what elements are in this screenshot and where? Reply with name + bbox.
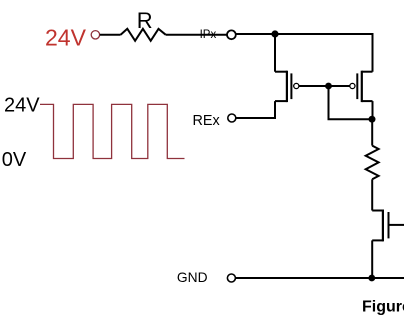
svg-text:Figure: Figure <box>362 299 404 316</box>
node N1 <box>271 30 278 37</box>
wire <box>275 34 373 72</box>
transistor M1 (PMOS) <box>275 71 329 102</box>
wire <box>329 86 373 119</box>
wire <box>371 119 373 145</box>
wire <box>236 101 275 118</box>
svg-text:REx: REx <box>193 113 221 129</box>
transistor M3 (NMOS) <box>372 210 404 242</box>
wire <box>371 240 373 278</box>
svg-text:24V: 24V <box>4 94 40 116</box>
transistor M2 (PMOS) <box>329 71 373 102</box>
svg-text:GND: GND <box>177 270 208 285</box>
node N3 <box>369 116 376 123</box>
wire <box>236 33 275 35</box>
wire <box>371 179 373 210</box>
wire GND rail <box>236 277 404 279</box>
wire <box>274 34 276 72</box>
svg-text:IPx: IPx <box>200 29 217 41</box>
svg-text:R: R <box>137 8 153 33</box>
resistor R2 <box>366 146 379 180</box>
terminal IPx <box>227 30 236 39</box>
node N2 gate tie <box>325 83 332 90</box>
terminal REx <box>228 114 236 122</box>
wire IPx rail <box>166 34 227 36</box>
svg-text:0V: 0V <box>2 149 27 171</box>
wire <box>372 101 374 119</box>
terminal GND <box>227 274 235 282</box>
wire <box>100 34 121 36</box>
svg-text:24V: 24V <box>45 25 86 51</box>
resistor R <box>121 29 166 41</box>
terminal 24V <box>91 31 99 39</box>
waveform square wave <box>40 104 185 158</box>
node N4 <box>368 275 375 282</box>
